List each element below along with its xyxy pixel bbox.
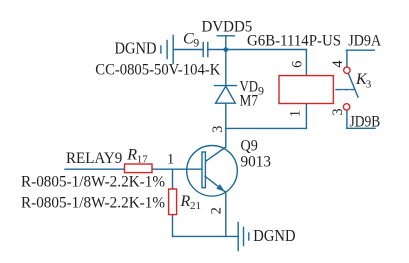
svg-text:1: 1	[287, 110, 303, 117]
svg-text:Q9: Q9	[241, 137, 258, 154]
svg-text:3: 3	[210, 126, 226, 133]
svg-text:M7: M7	[240, 93, 259, 110]
svg-text:JD9A: JD9A	[348, 32, 381, 49]
svg-text:2: 2	[209, 207, 225, 214]
svg-text:DGND: DGND	[115, 39, 157, 58]
svg-text:RELAY9: RELAY9	[66, 150, 122, 167]
svg-text:9: 9	[258, 83, 264, 97]
svg-text:6: 6	[289, 61, 305, 68]
svg-text:R: R	[126, 147, 137, 164]
svg-text:R-0805-1/8W-2.2K-1%: R-0805-1/8W-2.2K-1%	[21, 174, 165, 191]
svg-text:3: 3	[366, 78, 372, 90]
svg-text:3: 3	[330, 108, 346, 115]
svg-text:9013: 9013	[241, 153, 272, 170]
svg-text:DGND: DGND	[253, 226, 295, 245]
svg-text:1: 1	[167, 152, 174, 168]
svg-text:21: 21	[190, 200, 201, 212]
svg-text:17: 17	[137, 154, 149, 166]
svg-text:JD9B: JD9B	[350, 114, 381, 131]
svg-text:G6B-1114P-US: G6B-1114P-US	[247, 33, 341, 50]
svg-text:9: 9	[193, 36, 199, 50]
svg-text:DVDD5: DVDD5	[202, 19, 253, 36]
svg-text:R: R	[180, 193, 191, 210]
svg-text:CC-0805-50V-104-K: CC-0805-50V-104-K	[95, 61, 220, 78]
svg-text:R-0805-1/8W-2.2K-1%: R-0805-1/8W-2.2K-1%	[21, 195, 165, 212]
svg-text:4: 4	[330, 60, 346, 68]
